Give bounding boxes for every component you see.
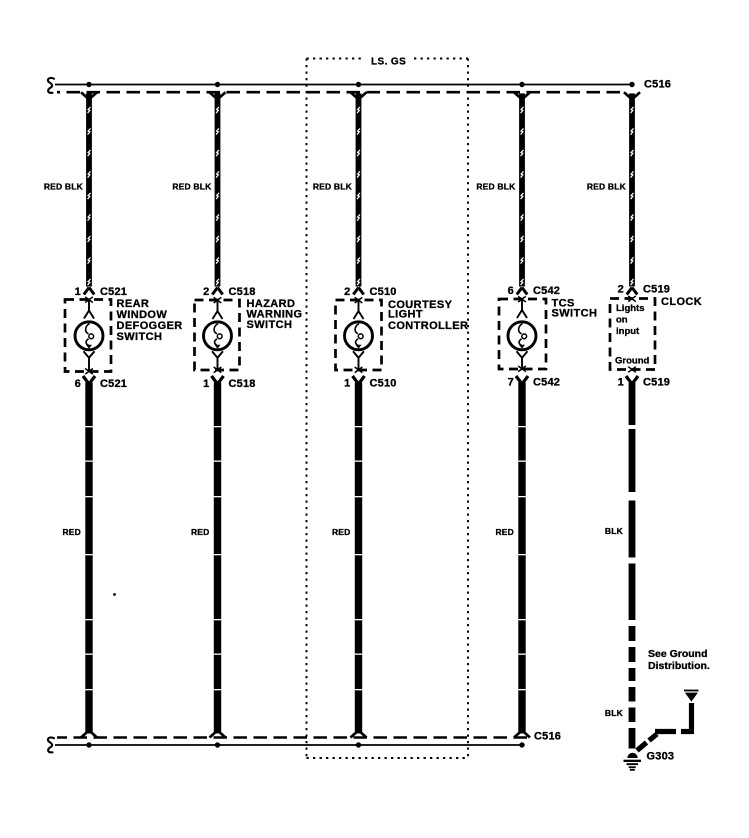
wire to hazard switch RED vertical to bottom bus (210, 376, 226, 738)
clock U2 dashed component box (610, 296, 655, 372)
svg-text:RED: RED (191, 527, 210, 537)
switch U1 COURTESY LIGHT CONTROLLER dashed component box (336, 300, 382, 370)
connector C519 pin 2 (618, 284, 670, 296)
svg-text:2: 2 (618, 284, 624, 296)
svg-text:C519: C519 (643, 377, 670, 389)
S1 REAR WINDOW DEFOGGER SWITCH internal terminal top (84, 297, 94, 319)
svg-text:C516: C516 (644, 79, 671, 91)
wire to clock RED/BLK vertical from top bus (624, 92, 640, 294)
ground G303 symbol (624, 753, 642, 771)
svg-text:BLK: BLK (605, 526, 624, 536)
node splice junction 4 on bottom bus (519, 742, 524, 747)
node splice junction 1 on top bus (86, 82, 91, 87)
wire to courtesy light controller RED vertical to bottom bus (351, 376, 367, 738)
switch S3 TCS SWITCH dashed component box (499, 299, 546, 369)
svg-text:RED: RED (62, 527, 81, 537)
connector C542 pin 7 (508, 377, 560, 389)
connector C521 pin 6 (75, 378, 127, 390)
node splice junction 5 on top bus (629, 82, 634, 87)
lamp (illumination bulb) inside S1 REAR WINDOW DEFOGGER SWITCH (75, 322, 103, 350)
svg-text:1: 1 (618, 377, 624, 389)
svg-text:RED BLK: RED BLK (587, 182, 627, 192)
svg-text:SWITCH: SWITCH (552, 308, 598, 320)
lamp (illumination bulb) inside S2 HAZARD WARNING SWITCH (204, 322, 232, 350)
svg-text:2: 2 (203, 286, 209, 298)
svg-text:input: input (616, 326, 640, 337)
svg-text:See Ground: See Ground (648, 648, 708, 660)
svg-text:CONTROLLER: CONTROLLER (388, 320, 468, 332)
svg-text:C510: C510 (370, 286, 397, 298)
node splice junction 3 on bottom bus (356, 742, 361, 747)
svg-text:LS. GS: LS. GS (371, 57, 406, 68)
svg-text:6: 6 (75, 378, 81, 390)
svg-text:RED: RED (495, 527, 514, 537)
lamp (illumination bulb) inside U1 COURTESY LIGHT CONTROLLER (345, 322, 373, 350)
connector C510 pin 1 (344, 378, 396, 390)
svg-text:C542: C542 (533, 377, 560, 389)
LS. GS option dotted boundary box (307, 59, 469, 759)
wire to TCS switch RED/BLK vertical from top bus (514, 92, 530, 294)
scan speck noise dot (113, 593, 116, 596)
label TCS component name (552, 298, 598, 320)
S3 TCS SWITCH internal terminal bottom (517, 351, 528, 371)
svg-text:C518: C518 (229, 286, 256, 298)
wire to courtesy light controller RED/BLK vertical from top bus (351, 92, 367, 294)
svg-text:RED: RED (332, 527, 351, 537)
lamp (illumination bulb) inside S3 TCS SWITCH (508, 322, 536, 350)
svg-text:RED BLK: RED BLK (476, 182, 516, 192)
wire to hazard switch RED/BLK vertical from top bus (210, 92, 226, 294)
label clock pin functions (615, 303, 649, 367)
wire to defogger switch RED vertical to bottom bus (81, 376, 97, 738)
S1 REAR WINDOW DEFOGGER SWITCH internal terminal bottom (84, 351, 95, 374)
label HAZARD component name (247, 298, 303, 331)
S3 TCS SWITCH internal terminal top (517, 296, 527, 318)
S2 HAZARD WARNING SWITCH internal terminal bottom (212, 351, 223, 372)
wire to TCS switch RED vertical to bottom bus (514, 376, 530, 738)
off-page arrow to ground distribution (684, 691, 699, 702)
svg-text:Lights: Lights (616, 303, 645, 314)
svg-text:1: 1 (75, 286, 81, 298)
wire continuation squiggle top-left (48, 78, 54, 93)
connector C510 pin 2 (344, 286, 396, 298)
svg-text:RED BLK: RED BLK (172, 182, 212, 192)
connector C521 pin 1 (75, 286, 127, 298)
svg-text:G303: G303 (647, 751, 675, 763)
svg-text:on: on (616, 315, 628, 326)
svg-text:2: 2 (344, 286, 350, 298)
svg-text:6: 6 (508, 285, 514, 297)
svg-text:C516: C516 (534, 731, 561, 743)
bottom ground bus (splice to C516) (55, 738, 527, 746)
svg-text:C519: C519 (643, 284, 670, 296)
label REAR component name (117, 298, 183, 343)
connector C542 pin 6 (508, 285, 560, 297)
U1 COURTESY LIGHT CONTROLLER internal terminal top (354, 297, 364, 319)
svg-text:RED BLK: RED BLK (313, 182, 353, 192)
node splice junction 4 on top bus (519, 82, 524, 87)
svg-text:C521: C521 (100, 378, 127, 390)
svg-text:C521: C521 (100, 286, 127, 298)
svg-text:Distribution.: Distribution. (648, 660, 710, 672)
label See Ground Distribution note (648, 648, 710, 672)
wire to defogger switch RED/BLK vertical from top bus (81, 92, 97, 294)
svg-text:7: 7 (508, 377, 514, 389)
connector C518 pin 1 (203, 378, 255, 390)
svg-text:C510: C510 (370, 378, 397, 390)
connector C518 pin 2 (203, 286, 255, 298)
node splice junction 3 on top bus (356, 82, 361, 87)
svg-text:LIGHT: LIGHT (388, 309, 423, 321)
svg-text:CLOCK: CLOCK (661, 296, 702, 308)
switch S2 HAZARD WARNING SWITCH dashed component box (195, 300, 240, 370)
top power bus (splice to C516) (55, 85, 633, 93)
node splice junction 2 on bottom bus (215, 742, 220, 747)
svg-text:SWITCH: SWITCH (117, 331, 163, 343)
node splice junction 2 on top bus (215, 82, 220, 87)
svg-text:Ground: Ground (615, 356, 649, 367)
svg-text:C518: C518 (229, 378, 256, 390)
switch S1 REAR WINDOW DEFOGGER SWITCH dashed component box (65, 300, 111, 372)
svg-text:1: 1 (344, 378, 350, 390)
svg-text:SWITCH: SWITCH (247, 319, 293, 331)
svg-text:C542: C542 (533, 285, 560, 297)
label COURTESY component name (388, 299, 468, 332)
svg-text:RED BLK: RED BLK (44, 182, 84, 192)
wire BLK from clock ground to G303 (626, 376, 638, 749)
node splice junction 1 on bottom bus (86, 742, 91, 747)
svg-text:BLK: BLK (605, 708, 624, 718)
svg-text:1: 1 (203, 378, 209, 390)
wire continuation squiggle bottom-left (48, 738, 54, 753)
S2 HAZARD WARNING SWITCH internal terminal top (213, 297, 223, 319)
wire dashed jumper from G303 splice to ground distribution arrow (637, 703, 694, 751)
connector C519 pin 1 (618, 377, 670, 389)
U1 COURTESY LIGHT CONTROLLER internal terminal bottom (353, 351, 364, 372)
